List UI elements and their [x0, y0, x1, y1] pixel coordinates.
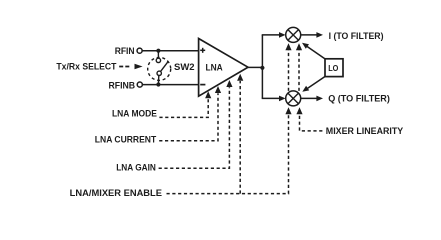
- svg-text:SW2: SW2: [174, 62, 195, 72]
- wire LNA output: [248, 66, 262, 68]
- wire stub from RFINB node to switch bottom contact: [157, 75, 159, 84]
- dashed control line MIXER LINEARITY: [300, 112, 323, 131]
- switch SW2 top contact: [156, 58, 160, 62]
- svg-text:Tx/Rx SELECT: Tx/Rx SELECT: [56, 62, 116, 72]
- svg-text:LNA CURRENT: LNA CURRENT: [95, 135, 157, 145]
- dashed control line LNA/MIXER ENABLE horizontal and branch to mixer Q: [167, 112, 289, 194]
- terminal RFIN: [137, 48, 142, 53]
- node junction on RFIN wire: [156, 49, 160, 53]
- dashed control line LNA GAIN: [159, 87, 230, 168]
- switch SW2 lever: [161, 61, 169, 71]
- arrowhead enable into mixer I: [285, 43, 291, 50]
- wire trunk vertical to both mixers: [261, 35, 263, 99]
- arrowhead LNA CURRENT into LNA: [215, 86, 221, 93]
- oscillator LO box: [325, 59, 343, 77]
- svg-text:LO: LO: [328, 64, 339, 73]
- dashed control line enable from mixer Q to mixer I: [288, 50, 290, 91]
- svg-text:Q (TO FILTER): Q (TO FILTER): [328, 94, 390, 104]
- arrowhead Q output: [316, 96, 323, 102]
- arrowhead LNA GAIN into LNA: [226, 80, 232, 87]
- wire RFINB to LNA - input: [143, 84, 199, 86]
- arrowhead LNA/MIXER ENABLE into LNA: [237, 74, 243, 81]
- wire I output: [301, 34, 317, 36]
- dashed control line LNA MODE: [159, 98, 208, 117]
- dashed control line LNA/MIXER ENABLE branch to LNA: [239, 81, 241, 194]
- op-amp LNA: [199, 39, 248, 97]
- switch SW2 dashed circle: [148, 57, 171, 80]
- arrowhead LO into mixer Q: [302, 86, 309, 92]
- dashed select control line: [119, 66, 129, 68]
- svg-text:LNA MODE: LNA MODE: [112, 108, 157, 118]
- node junction at LNA output: [260, 66, 264, 70]
- wire LO to mixer Q: [306, 76, 325, 89]
- terminal RFINB: [137, 82, 142, 87]
- mixer I (circle with X): [286, 27, 301, 42]
- svg-text:LNA GAIN: LNA GAIN: [116, 163, 156, 173]
- svg-text:I (TO FILTER): I (TO FILTER): [329, 31, 384, 41]
- dashed control line linearity from mixer Q to mixer I: [298, 50, 300, 91]
- wire branch to top mixer: [262, 34, 280, 36]
- arrowhead into bottom mixer: [279, 96, 286, 102]
- arrowhead into top mixer: [279, 32, 286, 38]
- svg-text:RFIN: RFIN: [115, 46, 135, 56]
- wire LO to mixer I: [306, 45, 326, 59]
- wire stub from RFIN node to switch top contact: [157, 51, 159, 59]
- arrowhead into switch SW2: [135, 64, 143, 69]
- svg-text:MIXER LINEARITY: MIXER LINEARITY: [326, 126, 404, 136]
- arrowhead LO into mixer I: [302, 43, 309, 49]
- svg-text:RFINB: RFINB: [109, 80, 136, 90]
- minus sign at LNA inverting input: [200, 84, 205, 86]
- wire RFIN to LNA + input: [142, 50, 199, 52]
- arrowhead LNA MODE into LNA: [205, 91, 211, 98]
- arrowhead I output: [316, 32, 323, 38]
- arrowhead LNA/MIXER ENABLE into mixer Q: [285, 107, 291, 114]
- mixer Q (circle with X): [286, 91, 301, 106]
- dashed control line LNA CURRENT: [159, 93, 218, 141]
- svg-text:LNA: LNA: [206, 63, 223, 74]
- node junction on RFINB wire: [156, 82, 160, 86]
- wire branch to bottom mixer: [262, 97, 280, 99]
- switch SW2 bottom contact: [157, 71, 161, 75]
- plus sign at LNA non-inverting input: [200, 48, 205, 53]
- arrowhead linearity into mixer I: [296, 43, 302, 50]
- arrowhead MIXER LINEARITY into mixer Q: [296, 107, 302, 114]
- svg-text:LNA/MIXER ENABLE: LNA/MIXER ENABLE: [70, 188, 162, 198]
- wire Q output: [301, 97, 317, 99]
